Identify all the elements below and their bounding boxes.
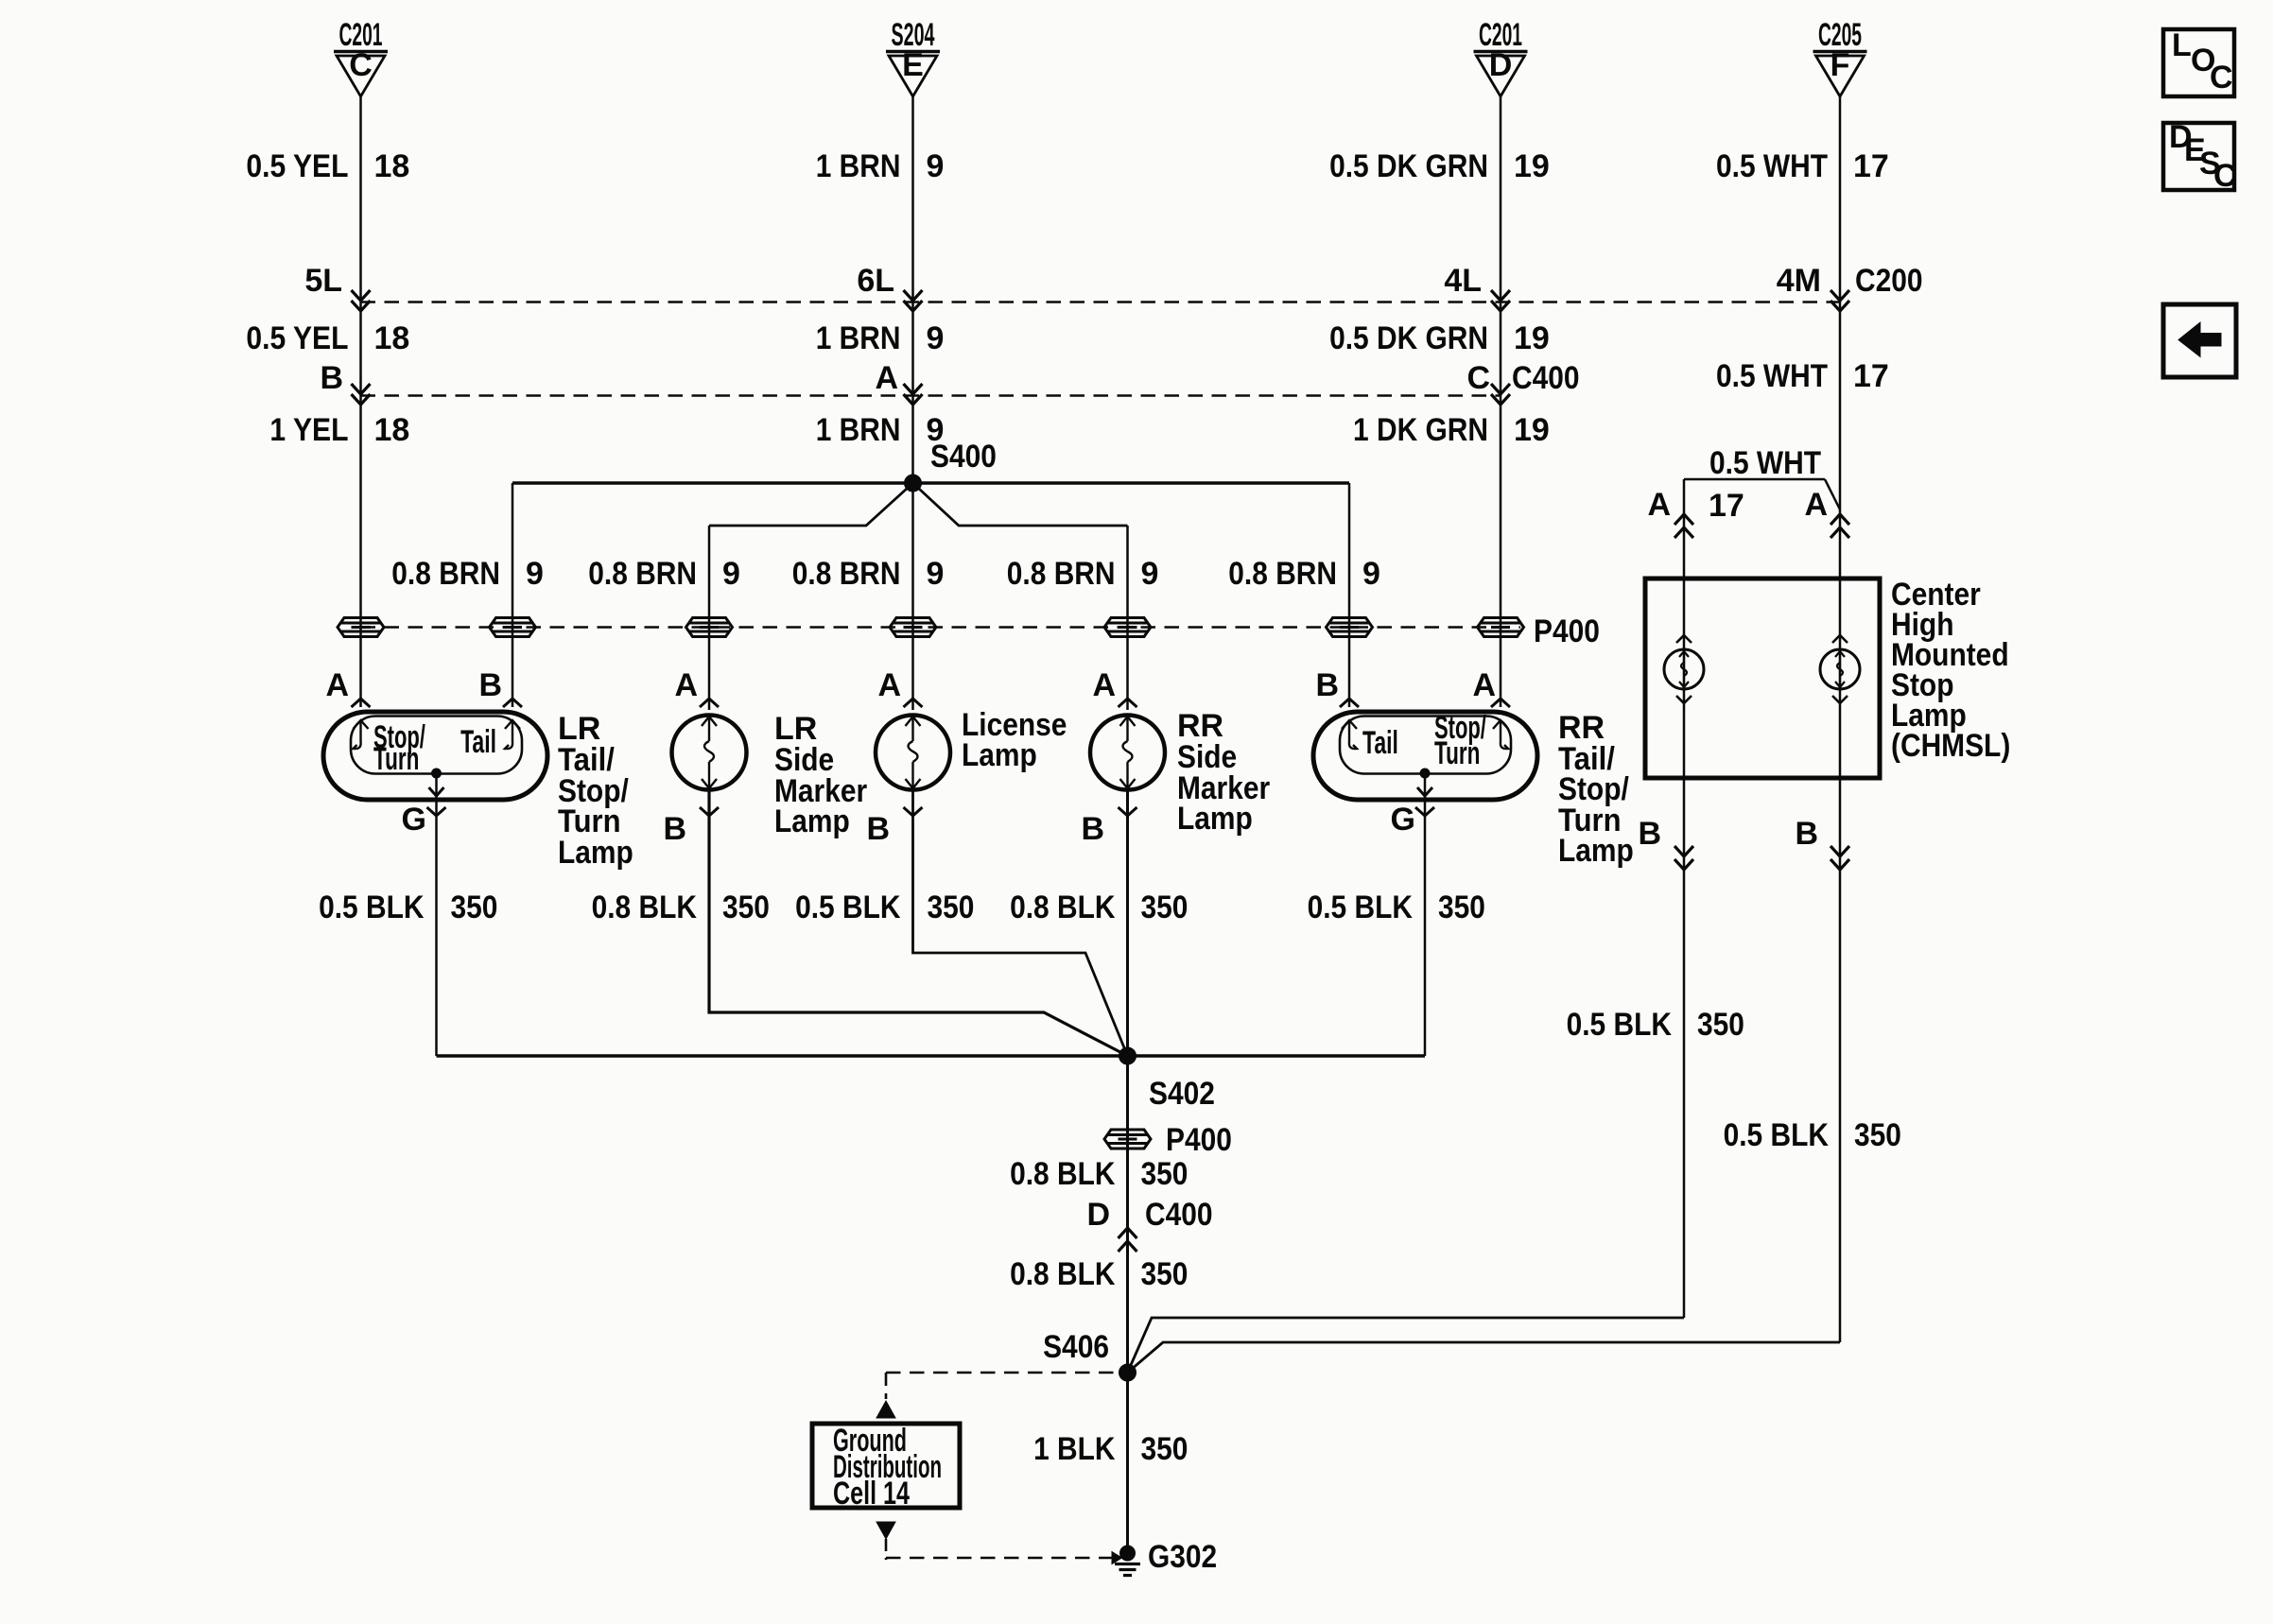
wire S400 horizontal branch to tail lamps	[512, 481, 1349, 484]
RR lamp ground stem	[1424, 773, 1427, 800]
connector arrow at C200 row wire E upper	[904, 290, 923, 301]
svg-text:9: 9	[927, 556, 945, 592]
connector P400 lens at wire RRA	[1478, 618, 1524, 637]
dashed harness boundary C400 row	[361, 394, 1501, 397]
svg-text:18: 18	[374, 320, 410, 356]
connector arrow at C400 wire D lower	[1119, 1241, 1137, 1252]
connector arrow at C400 row wire E upper	[904, 384, 923, 394]
dashed harness boundary P400 row	[361, 626, 1521, 629]
svg-text:A: A	[1092, 667, 1116, 703]
connector arrow at C400 row wire C lower	[352, 394, 371, 405]
RR ground arrowhead	[1417, 787, 1432, 796]
pin connector chevron License A	[904, 699, 923, 707]
lamp RR Tail/Stop/Turn outline	[1313, 712, 1537, 800]
lamp LR side marker bulb	[672, 716, 747, 790]
svg-text:A: A	[1804, 487, 1828, 523]
lamp LR Tail/Stop/Turn outline	[323, 712, 547, 800]
connector arrow at C400 wire D upper	[1119, 1228, 1137, 1238]
pin connector chevron LRSM B	[700, 807, 719, 816]
wire CHMSL left bulb feed	[1683, 479, 1686, 1318]
connector arrow at C200 row wire D upper	[1491, 290, 1510, 301]
connector arrow at C400 row wire E lower	[904, 394, 923, 405]
svg-text:B: B	[663, 811, 686, 847]
RR stop/turn filament arrow	[1493, 720, 1508, 749]
svg-text:A: A	[1472, 667, 1496, 703]
svg-text:350: 350	[928, 890, 975, 925]
svg-text:F: F	[1831, 47, 1850, 83]
svg-text:4M: 4M	[1777, 263, 1821, 299]
connector P400 lens below S402	[1104, 1130, 1151, 1149]
svg-text:Lamp: Lamp	[1558, 833, 1634, 869]
svg-text:0.8 BLK: 0.8 BLK	[1010, 1156, 1116, 1192]
CHMSL right bulb	[1820, 649, 1860, 689]
svg-text:S402: S402	[1149, 1076, 1215, 1112]
svg-text:A: A	[1647, 487, 1671, 523]
svg-text:5L: 5L	[304, 263, 342, 299]
svg-text:S406: S406	[1043, 1329, 1109, 1365]
svg-text:1 BRN: 1 BRN	[816, 320, 901, 356]
svg-text:350: 350	[1141, 1431, 1189, 1467]
arrow to ground distribution (up)	[876, 1401, 895, 1418]
pin connector chevron RRSM B	[1119, 807, 1137, 816]
dashed harness boundary C200 row	[361, 301, 1841, 303]
svg-text:9: 9	[526, 556, 544, 592]
svg-text:0.8 BRN: 0.8 BRN	[792, 556, 901, 592]
DESC reference box	[2163, 123, 2234, 190]
svg-text:350: 350	[1141, 890, 1189, 925]
svg-text:0.8 BLK: 0.8 BLK	[592, 890, 698, 925]
connector arrow at C200 row wire E lower	[904, 301, 923, 311]
pin connector chevron LRSM A	[700, 699, 719, 707]
svg-text:19: 19	[1514, 412, 1550, 448]
svg-text:9: 9	[722, 556, 740, 592]
LR stop/turn filament arrow	[354, 720, 369, 749]
connector arrow CHMSL left A upper	[1674, 514, 1693, 525]
svg-text:D: D	[1086, 1197, 1110, 1233]
svg-text:(CHMSL): (CHMSL)	[1891, 728, 2010, 764]
svg-text:6L: 6L	[857, 263, 894, 299]
wire 0.5 BLK 350 to CHMSL left ground	[1128, 1318, 1685, 1373]
svg-text:1 DK GRN: 1 DK GRN	[1353, 412, 1488, 448]
connector P400 lens at wire B	[490, 618, 536, 637]
svg-text:0.5 YEL: 0.5 YEL	[246, 320, 348, 356]
wire 0.5 BLK 350 from License lamp	[913, 790, 1128, 1057]
pin connector chevron LR B	[503, 699, 522, 707]
svg-text:D: D	[1489, 47, 1513, 83]
svg-text:1 BRN: 1 BRN	[816, 148, 901, 184]
svg-text:0.5 BLK: 0.5 BLK	[1308, 890, 1414, 925]
pin connector chevron LR A	[352, 699, 371, 707]
lamp RR side marker bulb	[1090, 716, 1165, 790]
pin connector chevron License B	[904, 807, 923, 816]
svg-text:Lamp: Lamp	[1177, 801, 1253, 837]
RR lamp ground junction	[1420, 769, 1430, 778]
bulb chevron left top	[1676, 635, 1692, 643]
svg-text:C: C	[2213, 158, 2237, 194]
svg-text:P400: P400	[1166, 1122, 1232, 1158]
svg-text:350: 350	[1697, 1007, 1744, 1043]
svg-text:0.8 BRN: 0.8 BRN	[1007, 556, 1116, 592]
wire 0.5 YEL 18 circuit (C201-C to LR lamp pin A)	[359, 96, 362, 707]
connector arrow CHMSL left A lower	[1674, 527, 1693, 538]
wire 0.5 BLK 350 from LR G	[435, 800, 438, 1056]
connector arrow at C200 row wire C lower	[352, 301, 371, 311]
ground G302 symbol	[1112, 1552, 1140, 1576]
svg-text:9: 9	[927, 320, 945, 356]
svg-text:0.8 BRN: 0.8 BRN	[391, 556, 500, 592]
wire S400 diagonal branch to LR side marker	[709, 483, 913, 526]
bulb chevron right top	[1832, 635, 1848, 643]
ground G302 terminal	[1120, 1546, 1136, 1561]
svg-text:350: 350	[1141, 1256, 1189, 1292]
wire LR side marker drop	[708, 526, 711, 710]
svg-text:B: B	[478, 667, 502, 703]
svg-text:18: 18	[374, 148, 410, 184]
svg-text:350: 350	[1141, 1156, 1189, 1192]
pin connector chevron RR G	[1415, 807, 1434, 816]
wire 0.5 BLK 350 from RR G	[1424, 800, 1427, 1056]
back arrow icon	[2178, 322, 2221, 357]
connector arrow CHMSL right B lower	[1831, 859, 1849, 870]
svg-text:17: 17	[1709, 488, 1744, 524]
splice S402	[1119, 1047, 1136, 1064]
svg-text:L: L	[2172, 27, 2192, 63]
svg-text:B: B	[1795, 816, 1818, 852]
RR tail filament arrow	[1342, 720, 1357, 749]
svg-text:0.5 BLK: 0.5 BLK	[795, 890, 901, 925]
connector P400 lens at wire LIC	[890, 618, 936, 637]
connector arrow at C200 row wire F lower	[1831, 301, 1849, 311]
svg-text:C: C	[1466, 360, 1490, 396]
connector arrow at C200 row wire F upper	[1831, 290, 1849, 301]
wire CHMSL branch horizontal	[1684, 478, 1825, 481]
svg-text:0.8 BLK: 0.8 BLK	[1010, 1256, 1116, 1292]
svg-text:G: G	[1391, 802, 1415, 838]
LR tail filament arrow	[505, 720, 520, 749]
svg-text:9: 9	[927, 148, 945, 184]
svg-text:1 BLK: 1 BLK	[1033, 1431, 1116, 1467]
wire S400 diagonal branch to RR side marker	[913, 483, 1128, 526]
svg-text:C400: C400	[1145, 1197, 1213, 1233]
Ground Distribution Cell 14 box	[812, 1424, 960, 1508]
wire 0.8 BLK 350 from LR side marker	[709, 790, 1128, 1057]
svg-text:C: C	[2210, 60, 2233, 95]
svg-text:4L: 4L	[1444, 263, 1482, 299]
svg-text:B: B	[320, 360, 343, 396]
ground bus horizontal to S402	[437, 1054, 1426, 1057]
wire CHMSL branch diagonal	[1825, 479, 1840, 510]
svg-text:A: A	[877, 667, 901, 703]
connector P400 lens at wire A	[338, 618, 384, 637]
svg-text:17: 17	[1853, 148, 1889, 184]
connector arrow CHMSL right A upper	[1831, 514, 1849, 525]
svg-text:Lamp: Lamp	[774, 803, 850, 839]
dashed link vertical upper	[885, 1373, 888, 1399]
svg-text:Lamp: Lamp	[558, 835, 633, 871]
svg-text:0.5 YEL: 0.5 YEL	[246, 148, 348, 184]
CHMSL left bulb	[1664, 649, 1704, 689]
svg-text:0.8 BRN: 0.8 BRN	[1228, 556, 1337, 592]
connector C205 pin F triangle	[1813, 52, 1867, 97]
LR lamp ground junction	[432, 769, 442, 778]
wire 1 BRN 9 circuit (S204-E to S400)	[911, 96, 914, 710]
svg-text:Tail: Tail	[1362, 725, 1398, 761]
connector arrow CHMSL left B lower	[1674, 859, 1693, 870]
connector P400 lens at wire LRSM	[686, 618, 733, 637]
wire 0.5 BLK 350 to CHMSL right ground	[1128, 1342, 1841, 1373]
svg-text:A: A	[325, 667, 349, 703]
lamp LR inner bulb housing	[351, 717, 522, 774]
wire 0.8 BLK 350 from RR side marker	[1126, 790, 1129, 1057]
connector arrow at C200 row wire D lower	[1491, 301, 1510, 311]
svg-text:1 BRN: 1 BRN	[816, 412, 901, 448]
pin connector chevron LR G	[427, 807, 446, 816]
svg-text:0.5 WHT: 0.5 WHT	[1709, 445, 1821, 481]
svg-text:P400: P400	[1534, 613, 1600, 649]
connector C201 pin D triangle	[1474, 52, 1528, 97]
lamp License bulb	[876, 716, 950, 790]
svg-text:C400: C400	[1512, 360, 1580, 396]
svg-text:E: E	[902, 47, 924, 83]
svg-text:C: C	[349, 47, 373, 83]
wire RR side marker drop	[1126, 526, 1129, 710]
svg-text:A: A	[875, 360, 898, 396]
pin connector chevron RRSM A	[1119, 699, 1137, 707]
svg-text:19: 19	[1514, 148, 1550, 184]
svg-text:0.5 DK GRN: 0.5 DK GRN	[1329, 148, 1488, 184]
dashed link vertical lower	[885, 1539, 888, 1560]
svg-text:350: 350	[1438, 890, 1485, 925]
svg-text:0.5 WHT: 0.5 WHT	[1716, 358, 1828, 394]
connector S204 pin E triangle	[886, 52, 940, 97]
connector arrow at C400 row wire D upper	[1491, 384, 1510, 394]
CHMSL lamp box	[1645, 579, 1880, 778]
svg-text:0.8 BLK: 0.8 BLK	[1010, 890, 1116, 925]
connector P400 lens at wire RRSM	[1104, 618, 1151, 637]
svg-text:B: B	[1315, 667, 1339, 703]
bulb chevron left bottom	[1676, 696, 1692, 703]
svg-text:350: 350	[1854, 1117, 1901, 1153]
svg-text:B: B	[1638, 816, 1661, 852]
svg-text:17: 17	[1853, 358, 1889, 394]
wire S400 branch corner left (to LR tail pin B)	[512, 483, 514, 707]
svg-text:Turn: Turn	[373, 741, 419, 777]
svg-text:9: 9	[1141, 556, 1159, 592]
connector P400 lens at wire RRB	[1327, 618, 1373, 637]
LOC reference box	[2163, 29, 2234, 96]
svg-text:0.5 DK GRN: 0.5 DK GRN	[1329, 320, 1488, 356]
svg-text:Tail: Tail	[460, 724, 496, 760]
wire 0.8 BLK 350 S402 to P400	[1126, 1056, 1129, 1553]
svg-text:1 YEL: 1 YEL	[269, 412, 348, 448]
svg-text:350: 350	[722, 890, 770, 925]
bulb chevron right bottom	[1832, 696, 1848, 703]
svg-text:B: B	[1081, 811, 1104, 847]
wire DK GRN 19 circuit (C201-D to RR lamp pin A)	[1500, 96, 1502, 707]
lamp RR inner bulb housing	[1340, 717, 1511, 774]
connector arrow at C400 row wire C upper	[352, 384, 371, 394]
pin connector chevron RR B	[1340, 699, 1359, 707]
svg-text:19: 19	[1514, 320, 1550, 356]
svg-text:Lamp: Lamp	[962, 737, 1037, 773]
splice S406	[1119, 1364, 1136, 1381]
svg-text:G: G	[402, 802, 426, 838]
splice S400	[905, 475, 922, 492]
svg-text:0.5 BLK: 0.5 BLK	[319, 890, 425, 925]
connector arrow CHMSL left B upper	[1674, 846, 1693, 856]
svg-text:350: 350	[451, 890, 498, 925]
connector C201 pin C triangle	[334, 52, 388, 97]
connector arrow at C200 row wire C upper	[352, 290, 371, 301]
wire S400 branch corner right (to RR tail pin B)	[1348, 483, 1351, 707]
wire 0.5 WHT 17 circuit (C205-F to CHMSL)	[1839, 96, 1842, 1342]
arrow from ground distribution (down)	[876, 1522, 895, 1539]
svg-text:B: B	[866, 811, 890, 847]
svg-text:9: 9	[1362, 556, 1380, 592]
svg-text:Turn: Turn	[1434, 735, 1480, 771]
connector arrow CHMSL right A lower	[1831, 527, 1849, 538]
svg-text:0.5 WHT: 0.5 WHT	[1716, 148, 1828, 184]
back arrow box	[2163, 304, 2236, 377]
svg-text:C200: C200	[1855, 263, 1923, 299]
dashed link S406 to ground distribution	[886, 1372, 1128, 1374]
svg-text:0.5 BLK: 0.5 BLK	[1724, 1117, 1830, 1153]
LR ground arrowhead	[429, 787, 444, 796]
connector arrow CHMSL right B upper	[1831, 846, 1849, 856]
svg-text:S400: S400	[930, 439, 997, 475]
connector arrow at C400 row wire D lower	[1491, 394, 1510, 405]
svg-text:G302: G302	[1148, 1539, 1217, 1575]
svg-text:Cell 14: Cell 14	[833, 1476, 910, 1512]
svg-text:18: 18	[374, 412, 410, 448]
pin connector chevron RR A	[1491, 699, 1510, 707]
svg-text:0.5 BLK: 0.5 BLK	[1567, 1007, 1673, 1043]
svg-text:0.8 BRN: 0.8 BRN	[588, 556, 697, 592]
dashed link to G302	[886, 1557, 1112, 1560]
LR lamp ground stem	[435, 773, 438, 800]
svg-text:A: A	[674, 667, 698, 703]
